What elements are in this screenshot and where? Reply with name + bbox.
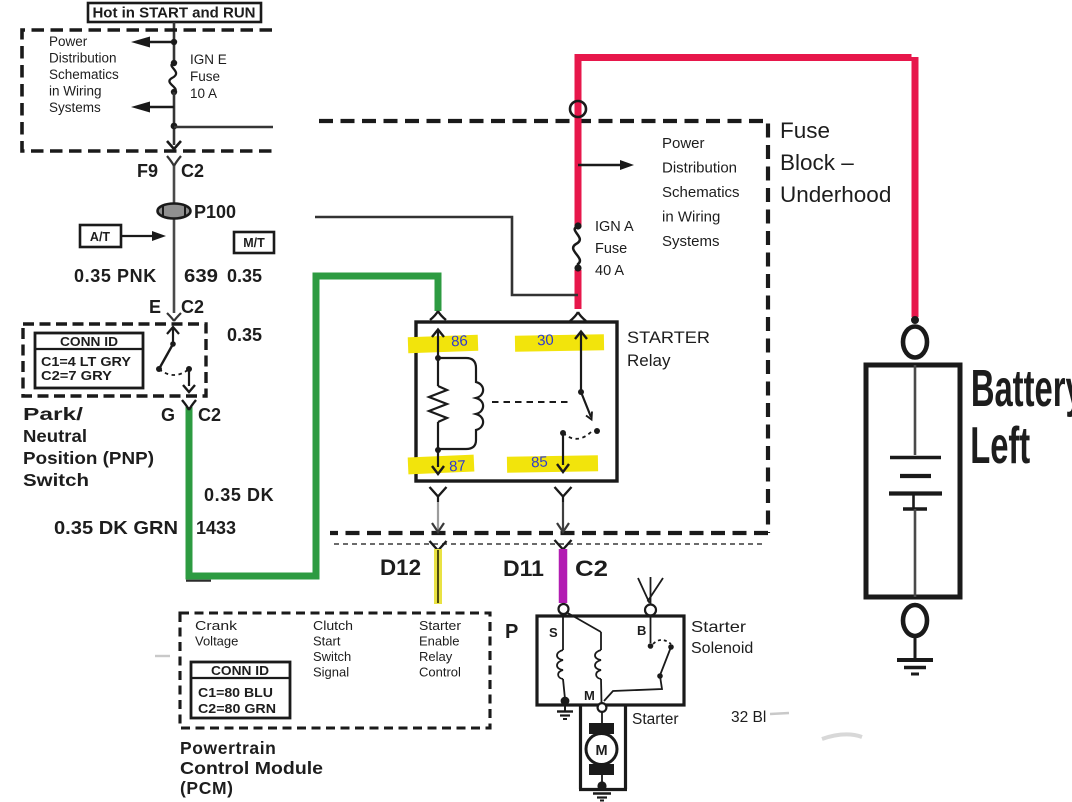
svg-text:Starter: Starter	[691, 619, 747, 636]
CONN ID table (PCM)	[191, 662, 290, 718]
node A/T	[80, 225, 166, 247]
svg-text:Underhood: Underhood	[780, 182, 891, 207]
svg-text:Solenoid: Solenoid	[691, 640, 753, 657]
svg-text:C2: C2	[575, 556, 608, 581]
svg-text:Neutral: Neutral	[23, 426, 87, 446]
svg-text:10 A: 10 A	[190, 86, 217, 101]
wire label 0.35 DK GRN 1433	[54, 518, 236, 538]
label Crank Voltage	[195, 618, 238, 649]
battery positive terminal ring	[903, 327, 927, 358]
solenoid contact switch	[604, 616, 674, 701]
dashed box PCM	[180, 613, 490, 728]
wire F9 to E	[173, 166, 176, 313]
relay actuation dashed link	[492, 401, 572, 403]
dashed box Power Distribution Schematics	[22, 30, 272, 151]
wire from Hot box to IGN E fuse	[173, 22, 176, 64]
svg-text:Relay: Relay	[627, 351, 671, 370]
svg-text:M/T: M/T	[243, 236, 265, 250]
svg-text:P: P	[505, 621, 518, 643]
svg-text:0.35: 0.35	[227, 266, 262, 286]
highlight band 30	[515, 334, 604, 352]
svg-text:Block –: Block –	[780, 150, 854, 175]
label Park/Neutral Position (PNP) Switch	[23, 404, 154, 490]
svg-text:Fuse: Fuse	[780, 118, 830, 143]
svg-text:Switch: Switch	[23, 470, 89, 490]
svg-text:40 A: 40 A	[595, 263, 624, 279]
svg-text:Switch: Switch	[313, 649, 351, 664]
svg-text:C2=80 GRN: C2=80 GRN	[198, 701, 276, 716]
svg-text:M: M	[595, 743, 607, 759]
junction dot red wire to battery	[911, 316, 919, 324]
svg-text:C2: C2	[198, 405, 221, 425]
svg-text:C1=4 LT GRY: C1=4 LT GRY	[41, 354, 131, 369]
svg-text:A/T: A/T	[90, 230, 111, 244]
solenoid hold-in winding	[566, 612, 602, 703]
svg-text:Relay: Relay	[419, 649, 453, 664]
label Clutch Start Switch Signal	[313, 618, 353, 680]
svg-text:C2: C2	[181, 297, 204, 317]
relay bottom junction to pin 87	[432, 447, 444, 474]
fuse IGN A 40A	[573, 219, 634, 279]
terminal S ring	[559, 604, 569, 614]
svg-text:B: B	[637, 623, 646, 638]
svg-text:D12: D12	[380, 555, 421, 580]
svg-text:F9: F9	[137, 161, 158, 181]
fuse IGN E 10A	[169, 52, 226, 101]
artifact gray dash right of 32 Bl	[770, 713, 789, 714]
node Hot in START and RUN box	[88, 3, 261, 22]
connector ring on red wire	[570, 101, 586, 117]
svg-text:87: 87	[449, 458, 467, 476]
ground (solenoid)	[557, 705, 573, 719]
svg-text:G: G	[161, 405, 175, 425]
ground (battery)	[897, 636, 933, 674]
svg-text:Schematics: Schematics	[662, 184, 740, 201]
svg-text:Power: Power	[662, 135, 705, 152]
svg-text:Park/: Park/	[23, 404, 83, 424]
terminal B feed wires	[638, 577, 663, 604]
wire yellow (starter enable relay control)	[434, 549, 442, 604]
connector chevron above relay pin 30	[570, 312, 586, 321]
svg-text:Systems: Systems	[49, 100, 101, 115]
connector chevron D12	[430, 541, 447, 551]
svg-text:86: 86	[451, 333, 469, 351]
label Fuse Block - Underhood	[780, 118, 891, 207]
wire 87 to fuse block edge	[432, 502, 444, 532]
svg-text:(PCM): (PCM)	[180, 778, 234, 798]
starter motor M	[586, 712, 617, 791]
svg-text:Control Module: Control Module	[180, 758, 323, 778]
svg-text:STARTER: STARTER	[627, 328, 710, 347]
svg-text:CONN ID: CONN ID	[211, 664, 269, 678]
connector chevron E/C2	[167, 313, 181, 321]
svg-text:IGN E: IGN E	[190, 52, 227, 67]
label Powertrain Control Module (PCM)	[180, 738, 323, 798]
dash-dot connector line C2 (below fuse block)	[334, 543, 762, 545]
label Battery Left	[970, 361, 1072, 475]
wire magenta (D11 to solenoid S)	[559, 549, 568, 603]
svg-text:0.35 PNK: 0.35 PNK	[74, 266, 157, 286]
wire from P100 branch to IGN A node	[315, 217, 578, 295]
svg-text:0.35: 0.35	[227, 325, 262, 345]
dashed box Fuse Block - Underhood	[319, 121, 768, 533]
svg-text:C2: C2	[181, 161, 204, 181]
node M/T	[234, 232, 274, 253]
svg-text:1433: 1433	[196, 518, 236, 538]
solenoid pull-in winding	[557, 614, 569, 705]
svg-text:Starter: Starter	[632, 711, 679, 728]
connector chevron D11	[555, 540, 572, 550]
junction dot	[171, 123, 178, 130]
relay box STARTER Relay	[416, 322, 617, 481]
label Starter Enable Relay Control	[419, 618, 462, 680]
junction dot	[171, 39, 177, 45]
arrow to Power Distribution Schematics	[578, 160, 634, 170]
relay resistor	[429, 358, 447, 450]
svg-text:E: E	[149, 297, 161, 317]
wire stub heading right	[174, 126, 273, 128]
relay coil (inductor loop)	[438, 358, 483, 449]
relay coil branch (pin 86 arrow)	[432, 330, 444, 362]
svg-text:Distribution: Distribution	[49, 51, 117, 66]
svg-text:0.35 DK: 0.35 DK	[204, 485, 274, 505]
svg-text:0.35 DK GRN: 0.35 DK GRN	[54, 518, 178, 538]
connector chevron below relay pin 87	[430, 487, 447, 502]
battery box	[866, 365, 960, 597]
svg-text:32 Bl: 32 Bl	[731, 709, 766, 726]
svg-text:Distribution: Distribution	[662, 160, 737, 177]
svg-text:S: S	[549, 625, 558, 640]
svg-text:Left: Left	[970, 418, 1030, 475]
svg-text:Hot in START and RUN: Hot in START and RUN	[92, 5, 255, 22]
label Power Distribution Schematics in Wiring Systems	[49, 34, 119, 115]
svg-text:in Wiring: in Wiring	[49, 84, 102, 99]
svg-text:Schematics: Schematics	[49, 67, 119, 82]
dashed box PNP switch	[23, 324, 206, 396]
terminal M ring	[598, 703, 607, 712]
connector chevron F9/C2	[167, 156, 181, 166]
arrow to Power Distribution (upper)	[131, 37, 174, 48]
box Starter	[579, 705, 627, 790]
svg-text:Start: Start	[313, 634, 341, 649]
arrow down to F9	[167, 141, 181, 149]
svg-text:Position (PNP): Position (PNP)	[23, 448, 154, 468]
svg-text:Fuse: Fuse	[595, 241, 627, 257]
svg-text:85: 85	[531, 454, 549, 472]
wire label 0.35 PNK 639	[74, 266, 262, 286]
svg-text:Battery: Battery	[971, 361, 1072, 418]
svg-text:C2=7 GRY: C2=7 GRY	[41, 368, 112, 383]
svg-text:Starter: Starter	[419, 618, 462, 633]
connector chevron above relay pin 86	[430, 311, 446, 320]
svg-text:D11: D11	[503, 556, 544, 581]
svg-text:Power: Power	[49, 34, 88, 49]
terminal B ring	[645, 605, 656, 616]
highlight band 85	[507, 455, 598, 473]
svg-text:Voltage: Voltage	[195, 634, 238, 649]
wire below fuse	[173, 92, 176, 145]
highlight band 86	[408, 335, 479, 353]
svg-text:Systems: Systems	[662, 233, 720, 250]
relay switch (pin 30)	[575, 332, 600, 435]
connector chevron G/C2	[182, 400, 196, 410]
svg-text:Fuse: Fuse	[190, 69, 220, 84]
svg-text:P100: P100	[194, 202, 236, 222]
svg-text:Control: Control	[419, 665, 461, 680]
svg-text:C1=80 BLU: C1=80 BLU	[198, 685, 273, 700]
battery negative terminal ring	[903, 605, 927, 636]
svg-text:30: 30	[537, 332, 555, 350]
connector chevron below relay pin 85	[555, 487, 572, 502]
wire dark green (PNP G to relay 86)	[186, 276, 438, 581]
svg-text:Crank: Crank	[195, 618, 238, 633]
relay contact 85 branch	[557, 430, 593, 472]
switch symbol (PNP)	[156, 327, 195, 392]
label STARTER Relay	[627, 328, 710, 370]
svg-text:Clutch: Clutch	[313, 618, 353, 633]
label Power Distribution Schematics in Wiring Systems	[662, 135, 740, 250]
highlight band 87	[408, 455, 475, 475]
artifact gray smudge near battery ground	[822, 734, 862, 739]
svg-text:639: 639	[184, 266, 218, 286]
box Starter Solenoid	[537, 616, 684, 705]
svg-text:Enable: Enable	[419, 634, 459, 649]
connector P100	[158, 202, 237, 222]
svg-text:Powertrain: Powertrain	[180, 738, 276, 758]
wire 85 to fuse block edge	[557, 502, 569, 532]
artifact gray dash left of PCM	[155, 655, 170, 657]
svg-text:IGN A: IGN A	[595, 219, 634, 235]
svg-text:Signal: Signal	[313, 665, 349, 680]
ground (starter)	[593, 794, 611, 801]
svg-text:in Wiring: in Wiring	[662, 209, 720, 226]
CONN ID table (PNP)	[35, 333, 143, 388]
svg-text:M: M	[584, 688, 595, 703]
svg-text:CONN ID: CONN ID	[60, 335, 118, 349]
battery cell symbol	[889, 365, 942, 597]
label Starter Solenoid	[691, 619, 753, 657]
arrow to Power Distribution (lower)	[131, 102, 174, 113]
wire red (battery feed)	[578, 57, 915, 317]
